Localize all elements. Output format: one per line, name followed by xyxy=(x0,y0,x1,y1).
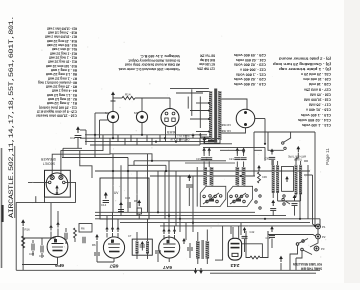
capacitor C20 xyxy=(206,158,212,160)
resistor R15 xyxy=(258,172,261,183)
wire vertical 128 xyxy=(127,158,129,213)
wire lamp2 bottom lead xyxy=(141,123,143,135)
wire bus drop xyxy=(102,135,104,142)
wire bus drop xyxy=(146,135,148,142)
wire drop xyxy=(62,148,64,157)
capacitor C9 xyxy=(94,253,100,255)
capacitor C11 plates xyxy=(75,136,82,138)
wire xyxy=(197,259,199,265)
fuse block xyxy=(204,139,220,144)
wire xyxy=(117,233,119,238)
svg-text:C28 - 16 mfd: C28 - 16 mfd xyxy=(309,82,331,86)
svg-text:243: 243 xyxy=(230,263,240,268)
capacitor C15 xyxy=(118,210,124,212)
junction xyxy=(112,170,114,172)
IF coil b xyxy=(146,241,149,254)
svg-text:637 Tun 250: 637 Tun 250 xyxy=(200,54,215,58)
svg-text:SPEAKER: SPEAKER xyxy=(40,157,56,161)
wire xyxy=(272,160,274,165)
capacitor C42 xyxy=(242,236,248,238)
svg-text:R19 - 10,000 ohm 1 watt: R19 - 10,000 ohm 1 watt xyxy=(46,26,77,30)
small arrow a xyxy=(191,133,194,138)
wire xyxy=(208,162,210,168)
wire switch drop xyxy=(290,132,292,138)
RF coil primary xyxy=(295,165,298,194)
svg-text:C32: C32 xyxy=(29,252,35,256)
band switch outline 1 xyxy=(200,186,226,206)
svg-text:C24 - .02 600 volts: C24 - .02 600 volts xyxy=(236,58,266,62)
small arrow b xyxy=(199,133,202,138)
capacitor C14 xyxy=(103,201,109,203)
wire bus 161 xyxy=(134,160,226,162)
svg-text:C40 8MF: C40 8MF xyxy=(221,123,231,127)
wire 243 left loop xyxy=(215,226,223,260)
svg-text:Voltages: 2.1v 460 B.C.: Voltages: 2.1v 460 B.C. xyxy=(140,54,180,58)
wire xyxy=(208,150,210,156)
arrow under RF coil xyxy=(293,195,297,201)
capacitor C32 xyxy=(32,244,34,251)
wire xyxy=(203,162,205,168)
wire transformer tap xyxy=(196,91,209,93)
wire IF top lead a xyxy=(136,232,138,241)
svg-text:AIRCASTLE.502,11,14,17,18,55T,: AIRCASTLE.502,11,14,17,18,55T,561,601T,8… xyxy=(8,16,15,218)
IF trimmer xyxy=(140,241,145,251)
power transformer secondary winding xyxy=(218,91,221,140)
wire lamp1 top lead xyxy=(112,101,114,112)
wire bus 176 xyxy=(150,175,255,177)
IF transformer box xyxy=(132,239,152,255)
tube 6F6 envelope xyxy=(47,236,68,257)
coil shield can xyxy=(282,166,294,191)
wire xyxy=(300,194,302,201)
arrow left of 6B7 xyxy=(95,234,99,240)
wire xyxy=(243,149,245,157)
wire bus 218 xyxy=(95,218,320,220)
wire xyxy=(272,193,274,198)
wire vertical 158 xyxy=(157,171,159,212)
ground arrow R16 xyxy=(21,219,25,226)
wire xyxy=(106,233,108,238)
wire xyxy=(271,239,273,249)
wire bus drop xyxy=(130,135,132,142)
wire bus drop xyxy=(179,138,181,141)
wire 6A7 top lead xyxy=(163,223,165,233)
ground arrow C15 xyxy=(119,202,123,208)
wire drop 193 xyxy=(192,219,194,232)
speaker socket outline xyxy=(45,170,71,197)
wave trap switch xyxy=(282,142,284,144)
grid arrow 6F6 xyxy=(49,225,53,231)
svg-text:R6: R6 xyxy=(92,243,96,247)
svg-text:C42: C42 xyxy=(250,230,255,234)
coil L2b xyxy=(242,167,246,186)
wire socket ground run xyxy=(16,203,75,271)
capacitor C30 plates xyxy=(269,157,275,159)
power switch S2 xyxy=(296,243,299,246)
wire stub terminal xyxy=(319,219,321,227)
wire xyxy=(277,193,279,201)
transformer tap junction xyxy=(208,110,210,112)
wire xyxy=(168,235,170,240)
svg-text:C21 - .1 600 volts: C21 - .1 600 volts xyxy=(236,72,266,76)
wire top staircase 2 xyxy=(176,92,203,94)
wire bus 222 xyxy=(120,222,310,224)
wire bus A xyxy=(85,134,207,136)
wire xyxy=(189,243,191,247)
junction xyxy=(240,175,242,177)
wire xyxy=(74,238,76,242)
svg-text:Page 11: Page 11 xyxy=(325,148,330,165)
ground under transformer xyxy=(203,136,207,143)
wire lamp2 top lead xyxy=(141,98,143,111)
svg-text:C16 - .01 400 v: C16 - .01 400 v xyxy=(306,108,331,112)
antenna coil primary xyxy=(272,165,275,193)
wire bus drop xyxy=(117,135,119,142)
svg-text:P2: P2 xyxy=(322,235,326,239)
wire B+ into switch bus xyxy=(264,147,266,160)
ground under T2 b xyxy=(199,268,203,274)
arrow left of T2 xyxy=(182,238,186,244)
wire vertical 312 xyxy=(313,175,316,226)
wire switch drop xyxy=(296,251,302,258)
junction xyxy=(112,137,114,139)
wire xyxy=(32,251,34,256)
wire transformer tap xyxy=(190,110,209,112)
wire socket feed 1 xyxy=(52,142,110,175)
svg-text:C29 - 10 mfd elec: C29 - 10 mfd elec xyxy=(303,77,331,81)
wire xyxy=(96,241,98,252)
wire vertical 193 xyxy=(192,176,194,219)
wafer 1 hub xyxy=(209,199,214,202)
wire HT to rectifier plate xyxy=(222,99,248,110)
svg-text:R16: R16 xyxy=(25,228,31,232)
junction xyxy=(299,218,301,220)
wire xyxy=(280,263,282,270)
capacitor C8 xyxy=(155,251,161,253)
wire arrow lead xyxy=(296,153,298,158)
wire vertical 176 xyxy=(175,171,177,226)
capacitor C21 xyxy=(234,158,240,160)
ground in shield box xyxy=(104,192,108,199)
wire xyxy=(65,228,67,232)
wire bus 163 xyxy=(185,162,235,164)
wire stub xyxy=(267,231,269,235)
wire xyxy=(304,160,308,162)
capacitor under RF coil xyxy=(292,204,298,206)
capacitor C12 xyxy=(83,237,85,243)
wire xyxy=(300,161,302,165)
wire vertical 180 xyxy=(179,176,181,219)
capacitor C19 xyxy=(201,158,207,160)
wire B+ bus xyxy=(203,146,265,148)
caption model note xyxy=(293,262,322,271)
svg-text:C14: C14 xyxy=(101,203,107,207)
output transformer secondary xyxy=(206,241,210,259)
svg-text:(0) - Oscillating 25 turn loop: (0) - Oscillating 25 turn loop xyxy=(273,62,331,66)
svg-text:C27 - 8 mfd 25v: C27 - 8 mfd 25v xyxy=(304,87,331,91)
wire socket left stub xyxy=(28,181,48,183)
wire xyxy=(80,129,86,131)
tube 6B7 envelope xyxy=(103,237,124,258)
wire lamp1 bottom lead xyxy=(112,123,114,138)
svg-text:6X5: 6X5 xyxy=(167,130,175,134)
wire top staircase 1 xyxy=(170,88,209,90)
wire vertical 308 xyxy=(307,165,309,219)
tube 243 xyxy=(228,238,241,260)
svg-text:C15 - .1 400 volts: C15 - .1 400 volts xyxy=(301,113,331,117)
parts list resistor values block xyxy=(35,26,77,117)
capacitor C16 xyxy=(128,202,130,208)
capacitor values column xyxy=(234,53,266,86)
wire left feeder xyxy=(94,113,96,158)
wire xyxy=(236,150,238,156)
wire 6F6 top lead b xyxy=(57,211,59,226)
wire bottom bus under T1 xyxy=(200,143,232,145)
capacitor to ground xyxy=(270,209,276,211)
grid arrow 6A7 xyxy=(167,228,170,234)
wire xyxy=(203,149,205,157)
IF coil a xyxy=(136,241,139,254)
wire T2 top b xyxy=(206,230,208,242)
junction xyxy=(175,141,177,143)
svg-text:C36: C36 xyxy=(262,175,267,179)
svg-text:C16: C16 xyxy=(125,196,131,200)
arrow above C30 xyxy=(270,149,274,155)
pilot lamp M2 xyxy=(107,111,118,122)
wire socket right lead xyxy=(175,126,177,138)
wire bottom bus xyxy=(16,269,320,271)
wire xyxy=(41,253,43,258)
wire to rectifier socket xyxy=(135,97,170,99)
capacitor C44 xyxy=(269,236,275,238)
grid arrow 6B7 xyxy=(105,226,108,232)
wire osc loop xyxy=(246,231,250,258)
antenna arrow at dial lamp feed xyxy=(111,92,116,102)
svg-text:C11: C11 xyxy=(70,136,76,140)
terminal P3 xyxy=(314,246,319,251)
wire vertical 113 xyxy=(112,154,114,213)
wire 243 grid drop xyxy=(230,227,232,235)
wire small stub left xyxy=(85,130,87,145)
ground arrow C17 xyxy=(137,200,141,206)
arrow wave trap xyxy=(296,146,300,152)
wire drop 186 xyxy=(185,223,187,240)
wire to switch xyxy=(310,239,318,247)
wire IF feed xyxy=(147,219,149,235)
svg-text:(0) - 2 plate trimmer wound: (0) - 2 plate trimmer wound xyxy=(279,57,331,61)
arrow right cluster xyxy=(270,226,274,232)
wire xyxy=(32,240,34,243)
wire xyxy=(277,161,279,165)
wire feed extension xyxy=(110,154,152,161)
coil L2a xyxy=(236,167,240,186)
wire cathode drop xyxy=(22,227,24,270)
capacitor C22 xyxy=(241,158,247,160)
coil L1a xyxy=(203,167,207,186)
wire rectifier output drop xyxy=(264,119,266,144)
capacitor C33 xyxy=(41,246,43,253)
wire transformer tap xyxy=(190,118,209,120)
wire 243 plate xyxy=(238,226,240,238)
wire bus drop xyxy=(124,138,126,145)
junction xyxy=(127,170,129,172)
wire C30 bottom xyxy=(271,160,273,165)
wire long bus 171 xyxy=(95,170,310,172)
svg-text:M3: M3 xyxy=(134,111,138,115)
wire vertical 121 xyxy=(120,165,122,215)
power transformer primary winding xyxy=(209,91,212,140)
junction xyxy=(157,211,159,213)
wire xyxy=(243,162,245,168)
wire xyxy=(138,214,140,219)
wire tie xyxy=(278,200,301,202)
wire bus C xyxy=(85,141,216,143)
wire xyxy=(163,235,165,240)
pilot lamp M3 xyxy=(136,111,147,122)
svg-text:SOCKET: SOCKET xyxy=(43,161,55,165)
wire stub xyxy=(133,161,135,166)
wire tie xyxy=(97,261,114,263)
wire bus drop xyxy=(185,135,187,142)
wire terminal link xyxy=(317,229,319,234)
wire vert 192 xyxy=(191,89,193,116)
switch lever small xyxy=(284,200,290,204)
transformer tap junction xyxy=(208,118,210,120)
junction xyxy=(264,218,266,220)
ground arrow left of switch xyxy=(187,174,191,181)
capacitor and coil values column xyxy=(273,57,331,127)
svg-text:C25 - .05 600 volts: C25 - .05 600 volts xyxy=(234,53,266,57)
wire bus drop xyxy=(151,138,153,145)
wire bus drop xyxy=(136,138,138,145)
junction xyxy=(141,134,143,136)
switch lever 2 xyxy=(230,193,246,204)
wire bus drop xyxy=(199,138,201,145)
band switch outline 2 xyxy=(228,186,253,206)
junction xyxy=(179,218,181,220)
svg-text:R14: R14 xyxy=(125,93,131,97)
svg-text:6A7: 6A7 xyxy=(162,265,172,270)
scan edge mark xyxy=(1,148,3,268)
junction B+ xyxy=(264,143,266,145)
wire 6B7 cathode xyxy=(113,258,115,262)
trimmer arrow xyxy=(242,148,246,154)
wire vertical 315 xyxy=(314,132,316,226)
wire 6B7 top lead xyxy=(117,219,119,231)
wire vert 200 xyxy=(199,97,201,129)
svg-text:5W4 SU: 5W4 SU xyxy=(178,134,190,138)
transformer tap junction xyxy=(208,131,210,133)
wire xyxy=(112,233,114,238)
wire cathode return xyxy=(22,264,58,266)
wire xyxy=(57,229,59,238)
wire rectifier output xyxy=(255,118,265,120)
svg-text:R9: R9 xyxy=(134,199,138,203)
notes sub column xyxy=(197,54,215,71)
svg-text:C20 - .02 600 volts: C20 - .02 600 volts xyxy=(234,77,266,81)
wire 6A7 top lead xyxy=(174,226,176,233)
wire C11 lead xyxy=(77,138,79,148)
wire xyxy=(189,251,191,258)
wire xyxy=(96,256,98,262)
wire bus D xyxy=(90,144,200,146)
wire vertical 169 xyxy=(168,161,170,219)
wire xyxy=(295,194,297,197)
resistor R14 xyxy=(122,96,135,99)
wire 6A7 cathode xyxy=(168,258,170,262)
svg-text:C23 - .02 600 volts: C23 - .02 600 volts xyxy=(234,63,266,67)
wire vertical 137 xyxy=(136,171,138,216)
terminal P2 xyxy=(316,234,321,239)
grid arrow 6A7 xyxy=(162,228,165,234)
junction xyxy=(314,225,316,227)
svg-text:C19 - .02 600 volts: C19 - .02 600 volts xyxy=(234,82,266,86)
wire xyxy=(240,223,242,235)
wire xyxy=(272,211,274,216)
svg-text:C21: C21 xyxy=(229,157,234,161)
wire xyxy=(236,162,238,168)
wire vertical 147 xyxy=(147,154,149,213)
svg-text:(0) - 1 plate trimmer cap: (0) - 1 plate trimmer cap xyxy=(279,67,331,71)
wire bus to 6F6 xyxy=(23,237,56,239)
wire bus 225 xyxy=(160,225,320,227)
coil L1b xyxy=(210,167,214,186)
svg-text:R6: R6 xyxy=(81,227,85,231)
wire 6F6 top lead a xyxy=(50,203,52,230)
wire C11 tie xyxy=(63,147,82,149)
speaker socket circle xyxy=(46,173,68,195)
wire vertical 300 xyxy=(299,171,301,219)
RF coil secondary xyxy=(299,165,302,194)
antenna coil secondary xyxy=(276,165,279,193)
wire xyxy=(65,239,67,244)
wire vertical 165 xyxy=(164,171,166,219)
wire staircase to box xyxy=(80,151,92,178)
grid arrow 6A7 xyxy=(173,228,176,234)
junction xyxy=(242,150,244,152)
junction xyxy=(168,215,170,217)
wire bus 157 xyxy=(62,157,128,159)
wire stub left xyxy=(254,149,262,151)
plate arrow 6F6 xyxy=(56,222,60,228)
wire T2 top a xyxy=(197,232,199,241)
wire bus drop xyxy=(159,135,161,142)
arrow above R15 xyxy=(257,165,261,171)
page index title AIRLINE models (vertical) xyxy=(8,16,15,218)
wire to terminal P2 xyxy=(268,235,316,237)
wire xyxy=(206,259,208,265)
wire 243 grid xyxy=(232,227,234,238)
wire transformer tap xyxy=(200,136,209,138)
wire vert 188 xyxy=(187,97,189,109)
svg-text:C14 - .02 600 volts: C14 - .02 600 volts xyxy=(298,118,331,122)
output transformer primary xyxy=(196,241,200,259)
control box above 6B7 xyxy=(79,224,92,233)
switch contacts column xyxy=(255,189,257,191)
wire 6F6 cathode xyxy=(57,257,59,264)
wire xyxy=(188,188,190,206)
wire horizontal 165 xyxy=(128,164,166,166)
svg-text:C18 - 10,000 mfd: C18 - 10,000 mfd xyxy=(304,98,331,102)
wire bus 215 xyxy=(95,215,286,217)
svg-text:P3: P3 xyxy=(321,247,325,251)
wire drop to osc area xyxy=(179,219,181,232)
wire xyxy=(174,235,176,240)
junction xyxy=(164,137,166,139)
wire xyxy=(147,254,149,260)
svg-text:6F6: 6F6 xyxy=(54,263,64,268)
wire socket left lead xyxy=(165,126,167,141)
